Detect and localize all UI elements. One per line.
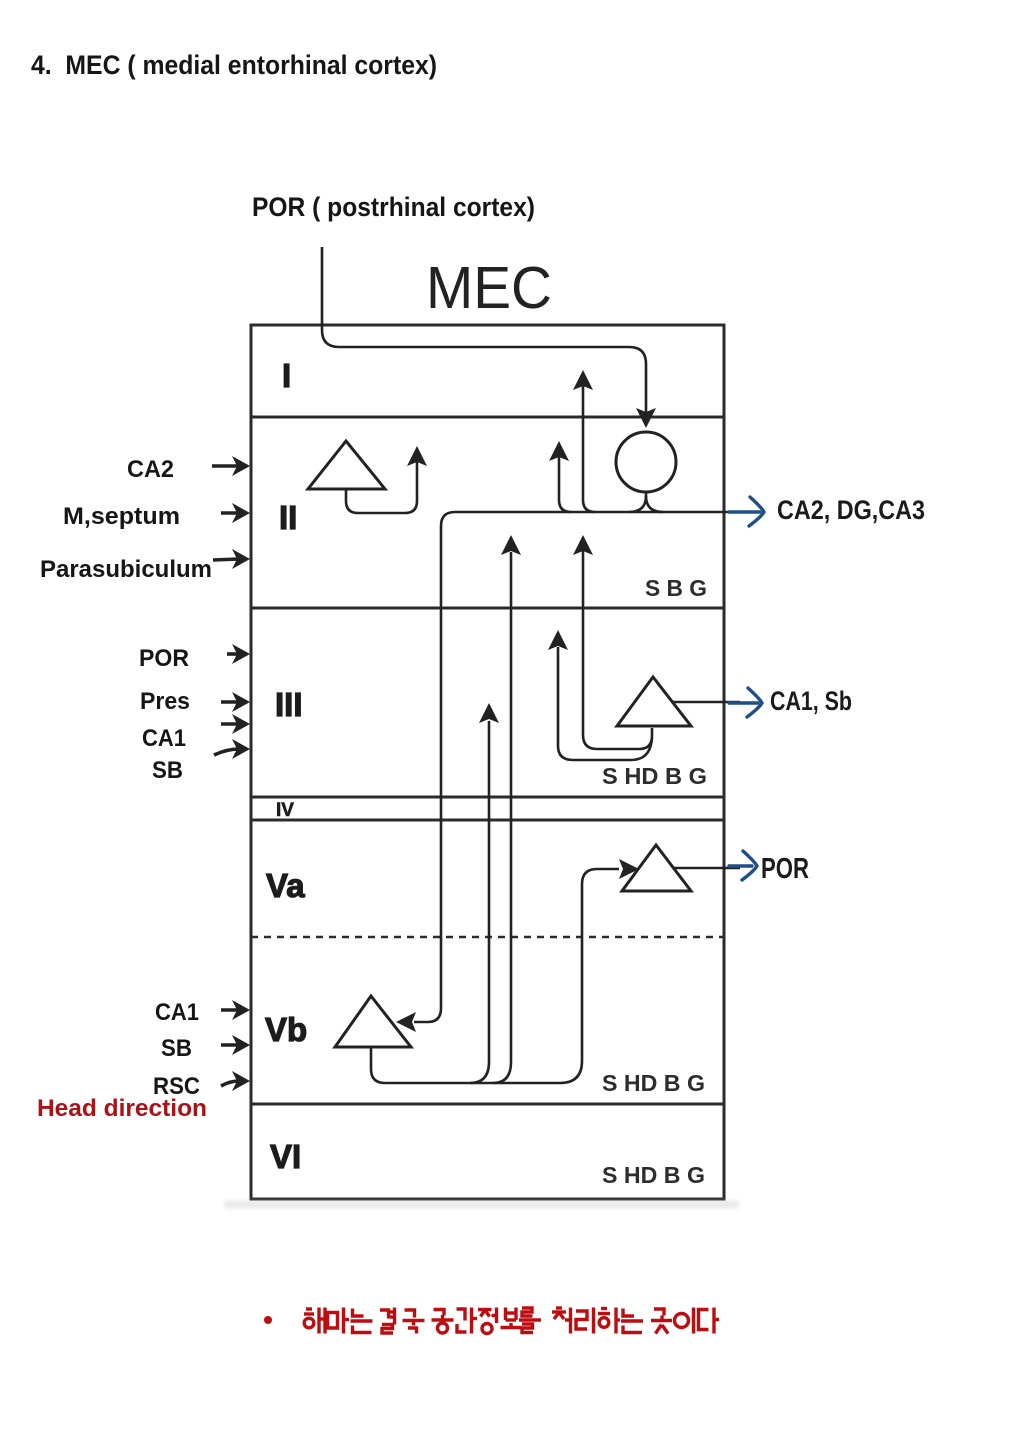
input arrow shaft Parasubiculum [213, 559, 239, 560]
MEC box outer frame [251, 325, 724, 1199]
svg-text:POR ( postrhinal cortex): POR ( postrhinal cortex) [252, 192, 535, 222]
blue output arrow to CA2, DG,CA3 [729, 510, 760, 513]
input arrow shaft RSC [221, 1081, 239, 1086]
red bullet point [264, 1316, 272, 1324]
wire layer III triangle output line [672, 701, 740, 704]
layer boundary IV/Va [251, 819, 724, 822]
input arrowhead M,septum [232, 503, 250, 523]
arrowhead layer II triangle loop (up) [407, 446, 427, 466]
scan shadow under box [224, 1201, 740, 1208]
arrowhead mid layer II branch (up) [549, 441, 569, 461]
arrowhead bundle branch in layer II (up) [501, 535, 521, 555]
svg-text:M,septum: M,septum [63, 503, 180, 530]
input arrowhead SB (III) [232, 739, 250, 759]
blue output arrow to POR [729, 864, 752, 867]
svg-text:Head direction: Head direction [37, 1095, 207, 1122]
dashed boundary Va/Vb [251, 936, 724, 939]
svg-text:4. MEC ( medial entorhinal co: 4. MEC ( medial entorhinal cortex) [31, 50, 437, 80]
svg-text:CA1: CA1 [142, 725, 186, 752]
wire branch up to layer I [583, 386, 595, 512]
pyramidal triangle layer Va [622, 845, 691, 891]
svg-text:III: III [275, 686, 303, 723]
input arrow shaft CA2 [212, 464, 239, 468]
svg-text:SB: SB [152, 757, 183, 784]
svg-text:S HD B G: S HD B G [602, 1162, 705, 1188]
layer boundary I/II [251, 416, 724, 419]
wire layer III triangle outer loop arrow [558, 647, 652, 760]
pyramidal triangle layer III [617, 677, 691, 726]
svg-text:S HD B G: S HD B G [602, 763, 707, 789]
svg-text:Pres: Pres [140, 688, 190, 715]
svg-text:S HD B G: S HD B G [602, 1070, 705, 1096]
svg-text:I: I [282, 357, 291, 394]
wire POR input down into layer II circle [322, 247, 646, 414]
wire Va triangle output line [673, 867, 740, 870]
layer boundary Vb/VI [251, 1103, 724, 1106]
wire layer II triangle loop arrow [346, 462, 417, 513]
input arrowhead RSC [232, 1071, 250, 1091]
wire layer II output line to CA2,DG,CA3 and down to Vb [414, 512, 740, 1022]
blue output arrow to CA1, Sb [729, 701, 758, 704]
svg-text:VI: VI [270, 1138, 301, 1175]
svg-text:CA2: CA2 [127, 456, 174, 483]
input arrow shaft POR [227, 652, 239, 656]
arrowhead into Va triangle (right) [619, 859, 639, 879]
stellate cell circle layer II [616, 432, 676, 492]
arrowhead POR input (down) [636, 408, 656, 428]
wire bundle branch up to layer III [470, 721, 489, 1083]
arrowhead layer III outer loop (up) [548, 630, 568, 650]
wire Vb triangle stem bundle to Va triangle [371, 869, 619, 1083]
layer boundary III/IV [251, 796, 724, 799]
input arrow shaft SB (III) [214, 749, 239, 755]
wire bundle branch up to layer II [493, 552, 511, 1083]
layer boundary II/III [251, 607, 724, 610]
arrowhead layer III inner loop (up) [573, 535, 593, 555]
input arrowhead Pres [232, 692, 250, 712]
input arrow shaft CA1 (Vb) [221, 1008, 239, 1012]
svg-text:POR: POR [761, 853, 809, 885]
svg-text:CA1: CA1 [155, 999, 199, 1026]
pyramidal triangle layer II [308, 441, 385, 489]
svg-text:Vb: Vb [265, 1011, 307, 1048]
arrowhead into Vb triangle (left) [396, 1012, 416, 1032]
input arrowhead CA2 [232, 456, 250, 476]
svg-text:S B G: S B G [645, 575, 707, 601]
svg-text:SB: SB [161, 1035, 192, 1062]
arrowhead bundle branch in layer III (up) [479, 703, 499, 723]
svg-text:CA1, Sb: CA1, Sb [770, 686, 852, 716]
svg-text:MEC: MEC [426, 255, 552, 321]
svg-text:POR: POR [139, 645, 189, 672]
input arrow shaft CA1 (III) [221, 722, 239, 726]
wire circle stem junction [645, 493, 648, 503]
input arrow shaft SB (Vb) [221, 1043, 239, 1047]
wire branch up mid layer II [559, 457, 571, 512]
pyramidal triangle layer Vb [335, 996, 411, 1047]
svg-text:Parasubiculum: Parasubiculum [40, 556, 212, 583]
input arrowhead CA1 (Vb) [232, 1000, 250, 1020]
svg-text:CA2, DG,CA3: CA2, DG,CA3 [777, 495, 925, 525]
input arrowhead POR [232, 644, 250, 664]
input arrow shaft M,septum [221, 511, 239, 515]
svg-text:II: II [279, 499, 297, 536]
svg-text:IV: IV [276, 800, 294, 821]
arrowhead layer I branch (up) [573, 370, 593, 390]
input arrowhead CA1 (III) [232, 714, 250, 734]
input arrow shaft Pres [221, 700, 239, 704]
input arrowhead Parasubiculum [232, 549, 250, 569]
input arrowhead SB (Vb) [232, 1035, 250, 1055]
korean caption (red): hae-ma-neun gyeol-guk gong-gan-jeong-bo-reul cheo-ri-ha-neun gos-i-da [304, 1308, 719, 1334]
svg-text:Va: Va [266, 867, 305, 904]
wire layer III triangle inner loop up to layer II [583, 551, 652, 749]
